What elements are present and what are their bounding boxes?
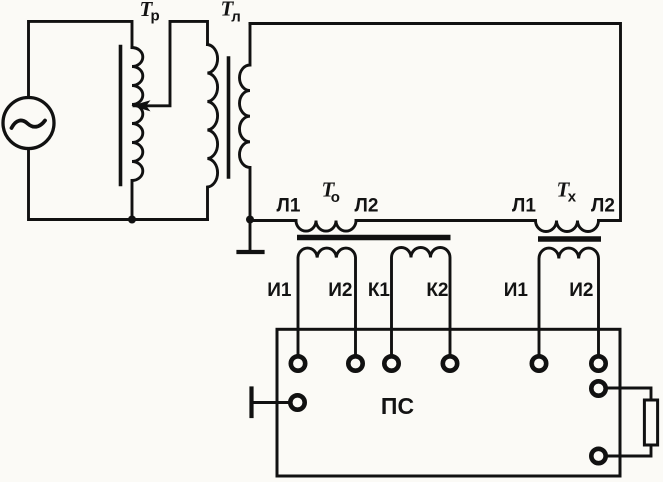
svg-text:ПС: ПС (381, 393, 414, 419)
ground (249, 220, 252, 252)
terminal X1 (291, 356, 305, 370)
autotransformer Tp core (119, 47, 123, 185)
svg-text:К1: К1 (368, 280, 391, 301)
svg-text:о: о (331, 189, 340, 206)
terminal X3 (384, 356, 398, 370)
current transformer To secondary winding K1-K2 (392, 248, 451, 357)
arrow: tap of autotransformer Tp (131, 100, 150, 111)
svg-text:И2: И2 (569, 280, 593, 301)
terminal X9 right lower (591, 449, 605, 463)
wire: top rail Tl secondary to Tx L2 (250, 24, 621, 221)
svg-text:Л1: Л1 (277, 196, 301, 217)
AC source G1 (3, 98, 54, 149)
wire: probe lead to left terminal (252, 401, 291, 404)
svg-text:Л1: Л1 (512, 196, 536, 217)
terminal X4 (443, 356, 457, 370)
svg-text:И1: И1 (267, 280, 292, 301)
wire: tap arrow tail up and over to Tl primary top (134, 21, 208, 105)
box PS (277, 329, 620, 476)
svg-text:л: л (231, 9, 241, 26)
current transformer To core (297, 235, 451, 240)
wire: source top to Tp winding top (29, 21, 133, 97)
svg-text:И1: И1 (504, 280, 529, 301)
terminal X2 (348, 356, 362, 370)
transformer Tl primary winding (208, 45, 218, 220)
svg-text:К2: К2 (426, 280, 448, 301)
node: junction Tp bottom on rail (128, 216, 136, 224)
terminal X7 left (290, 395, 304, 409)
current transformer To primary winding L1-L2 (296, 221, 356, 232)
autotransformer Tp winding (132, 48, 143, 220)
wire: resistor bottom to X9 (606, 445, 652, 456)
node: junction Tl secondary bottom (246, 216, 254, 224)
terminal X8 right upper (591, 381, 605, 395)
svg-text:И2: И2 (328, 280, 352, 301)
wire: L2 of To to L1 of Tx (356, 219, 536, 222)
terminal X6 (591, 356, 605, 370)
terminal X5 (532, 356, 546, 370)
current transformer Tx secondary winding I1-I2 (539, 248, 599, 356)
current transformer To secondary winding I1-I2 (298, 248, 356, 356)
current transformer Tx primary winding L1-L2 (536, 221, 599, 232)
probe bar electrode (249, 389, 253, 417)
svg-text:Л2: Л2 (591, 196, 615, 217)
svg-text:Л2: Л2 (355, 196, 379, 217)
wire: junction to L1 of To (250, 219, 296, 222)
svg-text:р: р (151, 8, 160, 25)
transformer Tl core (227, 58, 231, 177)
current transformer Tx core (538, 236, 601, 241)
svg-text:х: х (568, 189, 577, 206)
resistor R (644, 400, 657, 445)
wire: bottom rail source to Tl primary (29, 149, 208, 220)
wire: X8 to resistor top (606, 388, 652, 400)
transformer Tl secondary winding (240, 24, 251, 220)
